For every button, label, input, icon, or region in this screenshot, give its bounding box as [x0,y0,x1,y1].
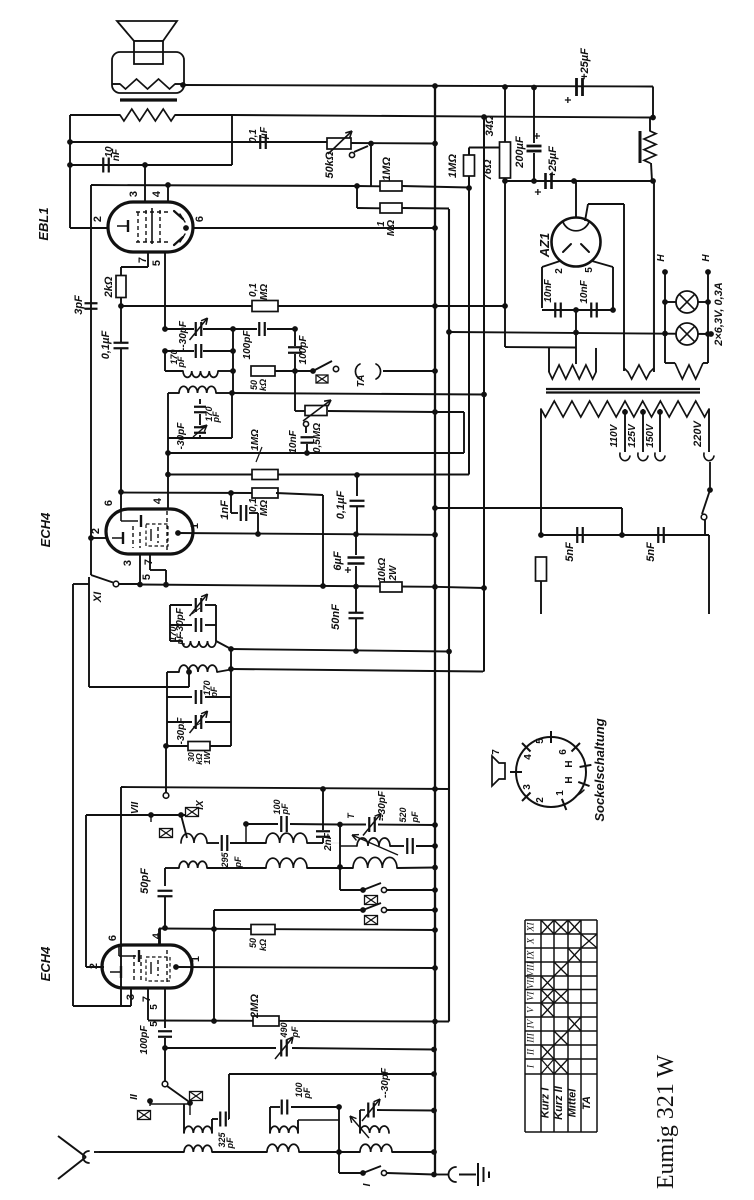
svg-text:4: 4 [523,754,534,760]
svg-text:7: 7 [491,749,502,755]
svg-text:ECH4: ECH4 [38,946,53,981]
svg-text:76Ω: 76Ω [482,159,494,180]
svg-text:+: + [341,566,355,573]
svg-text:100pF: 100pF [139,1025,150,1055]
svg-text:Sockelschaltung: Sockelschaltung [592,718,607,821]
svg-text:1: 1 [555,790,566,796]
svg-text:VIII: VIII [165,845,166,846]
svg-text:6: 6 [194,216,206,222]
svg-text:+: + [531,188,545,195]
svg-text:pF: pF [302,1087,312,1099]
svg-text:III: III [132,1116,133,1117]
svg-text:10nF: 10nF [288,429,299,453]
svg-text:295: 295 [220,852,230,869]
svg-text:200µF: 200µF [514,136,526,169]
svg-text:2W: 2W [388,564,399,582]
svg-text:Mittel: Mittel [567,1088,579,1118]
svg-text:-30pF: -30pF [176,422,187,450]
svg-text:1: 1 [190,956,202,962]
svg-text:5: 5 [141,574,153,580]
svg-text:II: II [129,1094,140,1100]
svg-text:+: + [561,96,575,103]
svg-text:7: 7 [143,559,155,565]
svg-text:2: 2 [554,268,565,274]
svg-text:I: I [527,1064,537,1069]
svg-text:MΩ: MΩ [259,500,270,516]
svg-text:2nF: 2nF [323,832,334,852]
svg-text:+25µF: +25µF [547,146,559,178]
svg-text:III: III [527,1032,537,1043]
svg-text:kΩ: kΩ [258,379,268,391]
svg-text:kΩ: kΩ [258,939,268,951]
svg-text:Kurz II: Kurz II [553,1085,565,1120]
svg-text:2: 2 [88,963,100,969]
svg-text:H: H [701,254,712,262]
svg-text:ECH4: ECH4 [38,512,53,547]
svg-text:110V: 110V [609,423,620,447]
svg-text:1MΩ: 1MΩ [250,429,261,451]
svg-text:6: 6 [107,935,119,941]
svg-text:520: 520 [398,807,408,822]
svg-text:pF: pF [410,811,420,823]
svg-text:VIII: VIII [527,961,537,977]
svg-text:2: 2 [535,797,546,803]
svg-text:4: 4 [151,932,163,939]
svg-text:Kurz I: Kurz I [540,1087,552,1119]
svg-text:XI: XI [527,922,537,933]
svg-text:IV: IV [195,1108,196,1109]
svg-text:IX: IX [527,949,537,960]
svg-text:I: I [362,1183,373,1186]
svg-text:VII: VII [130,802,141,814]
svg-text:3: 3 [122,560,134,566]
svg-text:50: 50 [248,938,258,948]
svg-text:4: 4 [151,190,163,197]
svg-text:MΩ: MΩ [386,220,397,236]
svg-text:IV: IV [527,1018,537,1029]
svg-text:50nF: 50nF [330,604,342,630]
svg-text:5: 5 [149,1021,160,1027]
svg-text:50kΩ: 50kΩ [324,151,336,178]
svg-text:1MΩ: 1MΩ [447,154,459,178]
svg-text:pF: pF [176,356,186,368]
svg-text:7: 7 [141,996,153,1002]
svg-text:pF: pF [175,633,185,645]
svg-text:10nF: 10nF [543,278,554,302]
svg-text:pF: pF [233,856,243,868]
svg-text:0,1µF: 0,1µF [335,491,347,520]
svg-text:pF: pF [211,411,221,423]
svg-text:0,1µF: 0,1µF [100,331,112,360]
svg-text:5: 5 [535,738,546,744]
svg-text:pF: pF [280,803,290,815]
svg-text:1nF: 1nF [219,500,231,520]
svg-text:TA: TA [356,375,367,388]
svg-text:100pF: 100pF [298,335,309,365]
svg-text:5: 5 [584,267,595,273]
svg-text:4: 4 [152,497,164,504]
svg-text:6: 6 [103,500,115,506]
svg-text:5: 5 [151,260,163,266]
svg-text:2MΩ: 2MΩ [249,994,261,1019]
svg-text:2×6,3V, 0,3A: 2×6,3V, 0,3A [713,282,725,347]
svg-text:AZ1: AZ1 [537,233,552,259]
svg-text:H: H [564,776,575,783]
svg-text:Eumig 321 W: Eumig 321 W [653,1055,679,1190]
svg-text:0,5MΩ: 0,5MΩ [312,423,323,453]
svg-text:nF: nF [111,148,122,161]
svg-text:5: 5 [149,1004,160,1010]
svg-text:34Ω: 34Ω [484,115,496,136]
svg-text:T: T [346,812,356,819]
svg-text:V: V [527,1006,537,1013]
svg-text:XI: XI [92,591,104,603]
svg-text:50pF: 50pF [139,868,151,894]
svg-text:5nF: 5nF [645,542,657,562]
svg-text:5nF: 5nF [564,542,576,562]
svg-text:VI: VI [527,991,537,1001]
svg-text:3pF: 3pF [73,295,85,315]
svg-text:220V: 220V [692,419,704,447]
svg-text:3: 3 [128,191,140,197]
svg-text:pF: pF [225,1137,235,1149]
svg-text:1: 1 [189,523,201,529]
svg-text:6: 6 [558,749,569,755]
svg-text:+: + [530,132,544,139]
svg-text:100pF: 100pF [242,330,253,360]
svg-text:3: 3 [522,784,533,790]
svg-text:H: H [564,760,575,767]
svg-text:1W: 1W [202,751,212,765]
svg-text:EBL1: EBL1 [36,207,51,240]
svg-text:II: II [527,1048,537,1056]
svg-text:0,1: 0,1 [248,498,259,512]
svg-text:0,1: 0,1 [248,283,259,297]
svg-text:0,1: 0,1 [248,129,259,143]
svg-text:pF: pF [209,686,219,698]
svg-text:VII: VII [527,976,537,989]
svg-text:490: 490 [279,1022,289,1038]
svg-text:10kΩ: 10kΩ [377,558,388,583]
svg-text:pF: pF [290,1026,300,1038]
svg-text:VI: VI [351,896,352,897]
svg-text:2: 2 [92,216,104,222]
svg-text:125V: 125V [627,423,638,448]
svg-text:µF: µF [259,126,270,140]
svg-text:MΩ: MΩ [259,284,270,300]
svg-text:--30pF: --30pF [178,320,189,351]
svg-text:V: V [351,916,352,917]
svg-text:TA: TA [581,1096,593,1110]
svg-text:X: X [527,937,537,945]
svg-text:H: H [656,254,667,262]
svg-text:IX: IX [195,799,206,810]
svg-text:10nF: 10nF [579,279,590,303]
svg-text:1MΩ: 1MΩ [381,157,393,181]
svg-text:-30pF: -30pF [176,717,187,745]
svg-text:2: 2 [90,528,102,534]
svg-text:--30pF: --30pF [377,790,388,821]
svg-text:--30pF: --30pF [380,1067,391,1098]
svg-text:150V: 150V [645,423,656,448]
svg-text:+25µF: +25µF [579,48,591,80]
svg-text:2kΩ: 2kΩ [103,276,115,298]
